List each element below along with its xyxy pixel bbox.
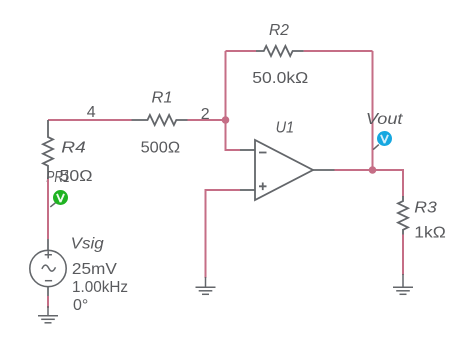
svg-text:PR1: PR1 <box>46 169 70 186</box>
ground (op-amp non-inverting input) <box>196 277 216 294</box>
wire node 2 down to inverting input <box>226 120 241 150</box>
wire R3 to ground <box>402 235 404 276</box>
probe Vout <box>373 131 392 150</box>
resistor R4 <box>43 120 53 179</box>
svg-text:1kΩ: 1kΩ <box>414 225 446 242</box>
junction node 2 <box>222 116 230 124</box>
svg-text:500Ω: 500Ω <box>141 139 181 156</box>
svg-text:Vout: Vout <box>366 111 403 128</box>
svg-text:2: 2 <box>201 106 210 123</box>
wire R1 to node 2 <box>188 119 226 121</box>
resistor R2 <box>256 46 304 56</box>
svg-text:U1: U1 <box>276 120 295 137</box>
voltage source Vsig <box>30 239 66 297</box>
svg-text:Vsig: Vsig <box>71 235 104 252</box>
junction output node <box>369 166 377 174</box>
ground (Vsig) <box>38 306 58 323</box>
resistor R1 <box>132 115 188 125</box>
ground (R3) <box>393 274 413 294</box>
svg-text:25mV: 25mV <box>72 261 117 278</box>
svg-text:4: 4 <box>87 104 96 121</box>
wire R4 to Vsig <box>47 179 49 239</box>
svg-text:R4: R4 <box>61 140 86 157</box>
wire node 4 horizontal <box>48 119 132 121</box>
wire top horizontal through R2 <box>226 50 373 52</box>
probe PR1 <box>50 190 68 207</box>
wire ground to non-inverting input <box>206 190 241 278</box>
wire top feedback from R2 left down to node 2 <box>225 51 227 120</box>
svg-text:R1: R1 <box>152 89 173 106</box>
resistor R3 <box>398 196 408 238</box>
svg-text:R3: R3 <box>414 200 437 217</box>
wire op-amp output to junction and R3 corner <box>335 170 404 197</box>
svg-text:0°: 0° <box>73 297 88 314</box>
wire right feedback drop from R2 to output node <box>372 51 374 170</box>
svg-text:50.0kΩ: 50.0kΩ <box>252 70 308 87</box>
wire Vsig to ground <box>47 296 49 308</box>
op-amp U1 <box>240 140 335 200</box>
svg-text:1.00kHz: 1.00kHz <box>72 279 128 296</box>
svg-text:R2: R2 <box>269 22 289 39</box>
